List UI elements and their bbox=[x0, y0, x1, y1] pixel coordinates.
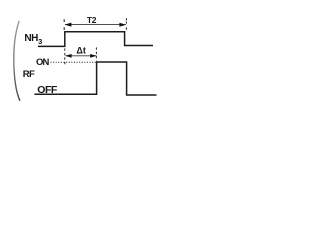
NH3 trace bbox=[38, 32, 153, 47]
dt dimension arrow line bbox=[65, 55, 96, 57]
dt right arrowhead bbox=[90, 54, 96, 58]
left parenthesis (figure brace) bbox=[14, 21, 20, 101]
dt left arrowhead bbox=[65, 54, 71, 58]
T2 left extension tick bbox=[63, 19, 65, 30]
ON level dotted line bbox=[51, 61, 97, 63]
svg-text:RF: RF bbox=[23, 69, 35, 80]
svg-text:ON: ON bbox=[36, 57, 49, 68]
RF trace bbox=[35, 62, 157, 95]
dt right dashed extension bbox=[95, 47, 97, 60]
T2 right extension tick bbox=[125, 18, 127, 29]
T2 right arrowhead bbox=[119, 23, 126, 27]
dt left dashed extension bbox=[64, 48, 66, 64]
T2 dimension arrow line bbox=[65, 24, 126, 26]
svg-text:NH3: NH3 bbox=[24, 33, 42, 46]
svg-text:T2: T2 bbox=[87, 15, 97, 25]
svg-text:Δt: Δt bbox=[76, 45, 85, 55]
T2 left arrowhead bbox=[65, 23, 72, 27]
